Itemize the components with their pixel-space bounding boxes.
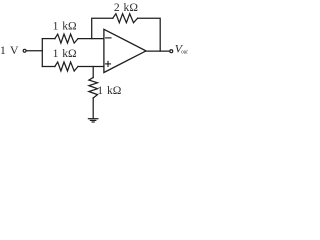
output terminal <box>170 50 173 53</box>
wire input junction riser <box>41 39 43 67</box>
wire feedback to output node <box>138 18 161 51</box>
resistor R1 1 kOhm top <box>55 34 78 43</box>
wire op-amp output <box>146 50 169 52</box>
wire R4 to ground <box>92 98 94 118</box>
wire R2 to op-amp plus input <box>78 66 104 68</box>
wire to R2 <box>42 66 55 68</box>
svg-text:1 V: 1 V <box>0 43 19 57</box>
wire to R1 <box>42 38 55 40</box>
resistor R4 1 kOhm to ground <box>89 78 98 99</box>
input terminal <box>23 49 26 52</box>
svg-text:1 kΩ: 1 kΩ <box>53 19 77 32</box>
svg-text:2 kΩ: 2 kΩ <box>114 1 138 14</box>
op-amp minus sign <box>106 37 111 39</box>
resistor R2 1 kOhm bottom <box>55 62 78 71</box>
wire feedback riser left <box>92 18 113 38</box>
wire R1 to op-amp minus input <box>78 38 104 40</box>
svg-text:1 kΩ: 1 kΩ <box>53 47 77 60</box>
ground <box>88 118 98 120</box>
op-amp plus sign <box>106 63 111 65</box>
resistor R3 2 kOhm feedback <box>113 14 138 23</box>
svg-text:1 kΩ: 1 kΩ <box>97 84 121 97</box>
wire input to junction <box>27 50 43 52</box>
op-amp U1 <box>104 29 146 72</box>
wire R4 drop from plus node <box>92 67 94 78</box>
